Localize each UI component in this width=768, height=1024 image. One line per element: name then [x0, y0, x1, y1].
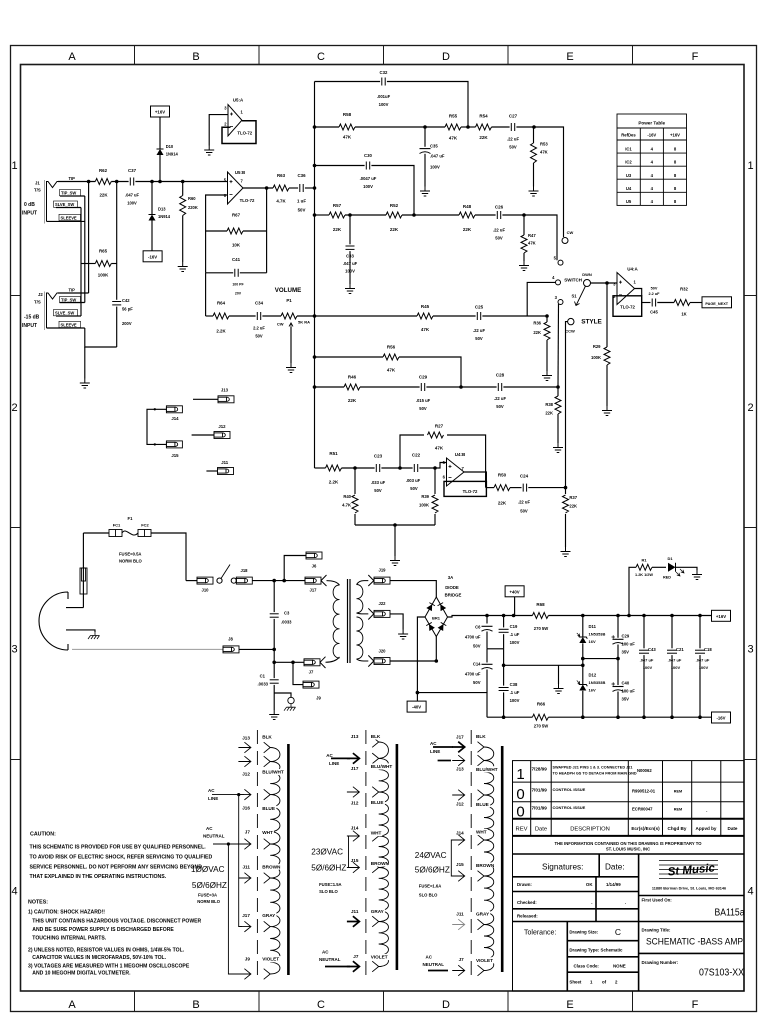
svg-text:07S103-XX: 07S103-XX [699, 968, 744, 979]
svg-text:100V: 100V [345, 269, 355, 274]
wire J2 tip_sw row [60, 302, 85, 304]
svg-text:J12: J12 [351, 801, 359, 806]
svg-text:5K RA: 5K RA [298, 320, 310, 325]
wire jack vertical c [80, 208, 82, 317]
svg-text:Ecr(s)/Ecn(s): Ecr(s)/Ecn(s) [631, 826, 660, 831]
svg-text:REM: REM [674, 808, 682, 812]
svg-text:1N5353B: 1N5353B [589, 632, 606, 637]
240VAC J11 arrow [452, 919, 465, 930]
capacitor C25 [476, 312, 478, 320]
svg-text:100K: 100K [591, 355, 601, 360]
pot terminal CW [562, 238, 568, 244]
svg-text:J17: J17 [456, 734, 464, 739]
svg-text:J18: J18 [241, 568, 249, 573]
240VAC J15 arrow [452, 871, 465, 882]
transformer primary winding [333, 585, 339, 658]
230VAC J12 arrow [347, 787, 360, 798]
primary top entry [321, 575, 340, 586]
wire R56 down to C29 row [399, 357, 461, 387]
230VAC neutral wire [325, 966, 350, 968]
svg-text:BROWN: BROWN [371, 861, 390, 866]
svg-text:50V: 50V [374, 488, 382, 493]
svg-text:BR1: BR1 [432, 616, 441, 621]
svg-text:R46: R46 [348, 375, 357, 380]
capacitor C26 [496, 211, 498, 219]
svg-text:5Ø/6ØHZ: 5Ø/6ØHZ [415, 865, 450, 874]
svg-text:+40V: +40V [510, 589, 520, 594]
capacitor C3 [273, 581, 275, 613]
revision table columns [531, 761, 721, 836]
svg-text:47K: 47K [435, 446, 444, 451]
svg-text:47K: 47K [421, 327, 430, 332]
svg-text:J7: J7 [309, 670, 314, 675]
svg-text:J9: J9 [245, 957, 251, 962]
svg-text:50V: 50V [298, 208, 306, 213]
svg-text:.: . [591, 900, 592, 905]
svg-text:C36: C36 [297, 173, 306, 178]
230VAC column transformer core bar [396, 744, 399, 970]
input jack J1 [22, 176, 81, 224]
svg-text:5Ø/6ØHZ: 5Ø/6ØHZ [192, 881, 227, 890]
240VAC column wire color labels [475, 733, 488, 739]
svg-text:22K: 22K [569, 504, 577, 509]
switch terminal 4 [556, 280, 561, 285]
switch terminal 3 [558, 300, 563, 305]
+40V box [505, 586, 524, 597]
wire C22 to U4:B pin5 [419, 463, 446, 469]
svg-text:INPUT: INPUT [22, 211, 37, 217]
240VAC J12 arrow [452, 790, 465, 801]
svg-text:FC2: FC2 [141, 523, 149, 528]
svg-text:200V: 200V [122, 321, 132, 326]
company logo [659, 861, 718, 879]
svg-text:-15 dB: -15 dB [24, 315, 40, 321]
ground under R29 [602, 406, 612, 416]
svg-text:BLUE: BLUE [371, 800, 384, 805]
feedback loop U5:A [222, 121, 256, 144]
svg-text:R32: R32 [680, 287, 688, 292]
svg-text:C29: C29 [622, 634, 630, 639]
svg-text:LINE: LINE [430, 749, 440, 754]
+40 rail wire [448, 616, 533, 618]
100VAC column primary winding [270, 748, 280, 975]
svg-text:-40V: -40V [412, 705, 421, 710]
svg-text:PAGE_NEXT: PAGE_NEXT [705, 302, 728, 306]
svg-text:A: A [68, 51, 76, 63]
feedback C41 row wire [206, 272, 234, 274]
svg-text:C29: C29 [419, 375, 428, 380]
svg-text:THIS SCHEMATIC IS PROVIDED FOR: THIS SCHEMATIC IS PROVIDED FOR USE BY QU… [30, 845, 207, 851]
240VAC column primary winding [484, 747, 494, 971]
svg-text:RED: RED [663, 576, 671, 580]
ground under R47 [519, 261, 529, 271]
feedback R67 row wire [206, 230, 227, 232]
wire J20 to bridge [390, 637, 436, 662]
svg-text:.0033: .0033 [258, 682, 269, 687]
svg-text:R58: R58 [343, 112, 352, 117]
svg-text:.047 uF: .047 uF [343, 261, 358, 266]
svg-text:1K: 1K [681, 312, 686, 317]
wire R57 to R52 [345, 214, 386, 216]
connector J15 [166, 441, 182, 448]
capacitor C36 [299, 184, 301, 192]
resistor R60 [180, 196, 186, 216]
svg-text:J16: J16 [242, 806, 250, 811]
R27 feedback loop wire [400, 435, 424, 468]
svg-text:BLK: BLK [371, 734, 381, 739]
svg-text:AC: AC [322, 950, 329, 955]
input jack J2 [22, 288, 81, 331]
svg-text:C43: C43 [648, 647, 656, 652]
svg-text:R67: R67 [232, 213, 241, 218]
switch terminal 5 [558, 260, 563, 265]
wire P1 to rail [297, 315, 315, 317]
wire C37 to U5B pin5 [135, 181, 227, 183]
svg-text:SLEEVE: SLEEVE [61, 215, 77, 220]
svg-text:R68: R68 [536, 602, 545, 607]
wire C23 to C22 [381, 467, 412, 469]
wire J1 tip_sw row [60, 195, 85, 197]
svg-text:3: 3 [747, 644, 753, 656]
svg-text:50V: 50V [651, 287, 658, 291]
wire R1 to D1 [652, 566, 666, 568]
svg-text:BA115a: BA115a [715, 908, 745, 919]
-16V box [712, 712, 731, 723]
svg-text:AC: AC [430, 741, 437, 746]
svg-text:C35: C35 [430, 144, 438, 149]
svg-text:BROWN: BROWN [262, 864, 281, 869]
svg-text:J1: J1 [35, 181, 40, 186]
svg-text:Chgd By: Chgd By [668, 826, 687, 831]
-16 rail wire [548, 716, 712, 718]
capacitor C6 [486, 616, 488, 624]
LED D1 [668, 563, 676, 572]
svg-text:NONE: NONE [613, 963, 626, 968]
svg-text:.22 uF: .22 uF [518, 500, 531, 505]
100VAC neutral wire [213, 843, 244, 845]
svg-text:22K: 22K [348, 398, 357, 403]
svg-text:U5:B: U5:B [235, 170, 245, 175]
svg-text:U3: U3 [626, 173, 632, 178]
capacitor C37 [129, 178, 131, 186]
svg-text:C18: C18 [704, 647, 712, 652]
svg-text:BLK: BLK [262, 735, 272, 740]
svg-text:CCW: CCW [565, 329, 575, 334]
secondary winding lower [357, 617, 363, 659]
svg-text:J12: J12 [456, 801, 464, 806]
svg-text:BLUE: BLUE [476, 802, 489, 807]
+16V box [712, 610, 731, 621]
svg-text:BRIDGE: BRIDGE [445, 593, 462, 598]
svg-text:50V: 50V [419, 406, 427, 411]
svg-text:Date: Date [728, 826, 738, 831]
svg-text:C: C [615, 927, 621, 937]
R56 row wire [315, 356, 384, 358]
svg-text:J11: J11 [456, 912, 464, 917]
svg-text:D: D [442, 51, 450, 63]
+16V supply box [151, 106, 170, 117]
secondary middle tap [357, 608, 374, 619]
svg-text:R57: R57 [333, 203, 342, 208]
wire R1 branch [629, 567, 636, 615]
svg-text:-16V: -16V [647, 133, 656, 138]
power switch lever [221, 565, 230, 579]
wire J2 sleeve row [47, 327, 85, 329]
svg-text:C6: C6 [475, 625, 481, 630]
svg-text:AC: AC [208, 788, 215, 793]
wire node to R60 [182, 182, 184, 196]
svg-text:C: C [317, 999, 325, 1011]
svg-text:AC: AC [426, 955, 433, 960]
svg-text:R45: R45 [421, 304, 430, 309]
240VAC J7 arrow [452, 965, 465, 976]
svg-text:1N5353B: 1N5353B [589, 680, 606, 685]
svg-text:BLU/WHT: BLU/WHT [476, 767, 498, 772]
wire D13 to -16V [151, 221, 153, 251]
connector J13 [193, 398, 218, 400]
240VAC neutral wire [428, 970, 448, 972]
svg-text:J9: J9 [316, 696, 321, 701]
240VAC line wire [433, 746, 453, 748]
resistor R39 [434, 468, 436, 494]
svg-text:J19: J19 [379, 568, 387, 573]
volume pot P1 [262, 315, 281, 317]
title block frame [513, 854, 745, 991]
capacitor C45 [651, 299, 653, 307]
ground under R40 R39 [390, 556, 400, 566]
ground under R60 [178, 262, 188, 272]
ground under R53 [529, 187, 539, 197]
ground under P1 [286, 363, 296, 373]
svg-text:1 uF: 1 uF [297, 199, 306, 204]
wire U4:B out to R50 [486, 487, 494, 489]
svg-text:Tolerance:: Tolerance: [524, 930, 556, 937]
svg-text:0: 0 [516, 786, 524, 803]
zener D11 [582, 616, 584, 637]
svg-text:J15: J15 [171, 453, 179, 458]
resistor R46 [344, 384, 360, 390]
svg-text:1: 1 [11, 160, 17, 172]
wire J6 to AC node [284, 556, 306, 581]
svg-text:P1: P1 [286, 298, 292, 303]
wire plug to fuse [82, 533, 84, 608]
svg-text:4.7K: 4.7K [342, 503, 351, 508]
svg-text:NOTES:: NOTES: [28, 900, 48, 906]
resistor R66 [532, 714, 548, 720]
resistor R47 [523, 215, 525, 235]
svg-text:.001uF: .001uF [377, 94, 391, 99]
svg-text:2.2K: 2.2K [216, 329, 226, 334]
svg-text:.047 uF: .047 uF [125, 193, 140, 198]
wire R55 to R54 [461, 126, 476, 128]
svg-text:J13: J13 [242, 736, 250, 741]
svg-text:THE INFORMATION CONTAINED ON T: THE INFORMATION CONTAINED ON THIS DRAWIN… [555, 841, 703, 846]
240VAC column transformer core bar [501, 746, 504, 972]
svg-text:NEUTRAL: NEUTRAL [319, 957, 341, 962]
connector J18 [236, 577, 252, 584]
ground mid rail [558, 665, 560, 684]
feedback box U4:A [613, 296, 642, 317]
svg-text:.0047 uF: .0047 uF [360, 176, 377, 181]
wire terminal3 down to C28 row [557, 304, 560, 387]
U4:B input row wire [315, 467, 326, 469]
svg-text:R990512-01: R990512-01 [632, 789, 656, 794]
240VAC J17 arrow [452, 742, 465, 753]
svg-text:SCHEMATIC -BASS AMP: SCHEMATIC -BASS AMP [646, 937, 743, 948]
ground under J2 [80, 379, 90, 389]
240VAC J14 arrow [452, 835, 465, 846]
svg-text:S1: S1 [572, 294, 578, 299]
svg-text:SLVE_SW: SLVE_SW [55, 202, 74, 207]
wire U5:B output to R63 [243, 187, 273, 189]
svg-text:C25: C25 [475, 305, 484, 310]
100VAC column transformer core bar [287, 744, 290, 975]
capacitor C35 [424, 127, 426, 147]
svg-text:3A: 3A [448, 575, 454, 580]
capacitor C34 [256, 312, 258, 320]
main feedback rail [314, 82, 316, 469]
wire J2 slve_sw row [56, 315, 81, 317]
svg-text:R52: R52 [390, 203, 399, 208]
svg-text:D: D [442, 999, 450, 1011]
capacitor C29 psu [617, 616, 619, 638]
svg-text:.22 uF: .22 uF [473, 328, 486, 333]
svg-text:J6: J6 [312, 564, 317, 569]
-40 rail to R66 [487, 716, 532, 718]
R57 row wire [315, 214, 330, 216]
svg-text:4: 4 [11, 886, 17, 898]
wire C24 to R37 node [528, 487, 565, 489]
svg-text:3: 3 [11, 644, 17, 656]
svg-text:2: 2 [747, 402, 753, 414]
svg-text:22K: 22K [390, 227, 399, 232]
svg-text:100V: 100V [510, 640, 520, 645]
svg-text:R37: R37 [569, 495, 577, 500]
svg-text:100V: 100V [430, 165, 440, 170]
svg-text:22K: 22K [479, 135, 488, 140]
wire C27 to CW rail [516, 127, 563, 237]
svg-text:SLO BLO: SLO BLO [419, 892, 438, 897]
svg-text:TO HEADPH GS TO DETACH FROM MA: TO HEADPH GS TO DETACH FROM MAIN GND [553, 772, 637, 776]
connector J20 [374, 658, 390, 665]
svg-text:0: 0 [516, 804, 524, 821]
svg-text:J11: J11 [242, 864, 250, 869]
svg-text:C40: C40 [622, 681, 630, 686]
svg-text:U4: U4 [626, 186, 632, 191]
svg-text:GRAY: GRAY [476, 912, 490, 917]
mid ground rail [504, 664, 583, 666]
wire C28 to R38 node [503, 386, 558, 388]
svg-text:DWN: DWN [582, 272, 592, 277]
wire to ground [394, 525, 396, 556]
capacitor C29 [420, 383, 422, 391]
ground under R37 [561, 547, 571, 557]
wire C42 rail [116, 182, 118, 300]
svg-text:Date: Date [535, 826, 547, 832]
off-page connector PAGE_NEXT [702, 297, 732, 308]
svg-text:.003 uF: .003 uF [406, 478, 421, 483]
primary bottom entry [320, 657, 340, 668]
capacitor C33 [349, 215, 351, 244]
svg-text:Signatures:: Signatures: [542, 863, 583, 872]
svg-text:C19: C19 [510, 624, 518, 629]
connector J19 [374, 577, 390, 584]
svg-text:C: C [317, 51, 325, 63]
svg-text:1: 1 [516, 766, 524, 783]
230VAC line wire [331, 757, 350, 759]
svg-text:CAUTION:: CAUTION: [30, 832, 56, 838]
resistor R32 [674, 300, 690, 306]
svg-text:First Used On:: First Used On: [642, 898, 673, 903]
connector J22 [374, 610, 390, 617]
wire R65 row [81, 263, 95, 265]
-40V box [416, 693, 418, 702]
revision table frame [513, 761, 745, 991]
230VAC column wire color labels [370, 733, 383, 739]
capacitor C42 [112, 301, 121, 303]
svg-text:-16V: -16V [148, 254, 157, 259]
svg-text:J2: J2 [38, 292, 43, 297]
resistor R63 [273, 185, 289, 191]
svg-text:CAPACITOR VALUES IN MICROFARAD: CAPACITOR VALUES IN MICROFARADS, 50V-10%… [32, 955, 166, 961]
svg-text:of: of [602, 980, 607, 985]
svg-text:220K: 220K [188, 205, 198, 210]
svg-text:2) UNLESS NOTED, RESISTOR VALU: 2) UNLESS NOTED, RESISTOR VALUES IN OHMS… [28, 948, 185, 954]
svg-text:INPUT: INPUT [22, 323, 37, 329]
svg-text:R54: R54 [479, 114, 488, 119]
svg-text:2.2K: 2.2K [329, 480, 339, 485]
230VAC column winding taps [372, 737, 379, 748]
svg-text:50V: 50V [473, 644, 481, 649]
230VAC J15 arrow [347, 862, 360, 873]
100VAC J11 arrow [238, 873, 251, 884]
wire box to C45 [642, 302, 651, 304]
svg-text:J13: J13 [221, 388, 229, 393]
svg-text:FUSE=3A: FUSE=3A [198, 892, 217, 897]
svg-text:270 5W: 270 5W [534, 626, 548, 631]
resistor R64 [206, 315, 213, 317]
svg-text:50V: 50V [495, 236, 503, 241]
svg-text:16V: 16V [589, 639, 596, 644]
+16 rail wire [548, 615, 712, 617]
svg-text:16V: 16V [589, 688, 596, 693]
svg-text:NORM BLO: NORM BLO [119, 559, 143, 564]
capacitor C38 [503, 665, 505, 685]
svg-text:22K: 22K [463, 227, 472, 232]
svg-text:23ØVAC: 23ØVAC [311, 848, 343, 857]
connector J5 inline [80, 568, 87, 594]
svg-text:TLO-72: TLO-72 [240, 198, 255, 203]
capacitor C23 [375, 464, 377, 472]
svg-text:50V: 50V [473, 680, 481, 685]
svg-text:J20: J20 [379, 649, 387, 654]
svg-text:C1: C1 [260, 674, 266, 679]
switch S1 lever [575, 286, 586, 306]
resistor R58 [339, 124, 355, 130]
bottom wire R40 R39 [355, 524, 435, 526]
svg-text:STYLE: STYLE [581, 319, 602, 326]
resistor R67 [227, 228, 243, 234]
svg-text:.015 uF: .015 uF [416, 398, 431, 403]
svg-text:SLEEVE: SLEEVE [61, 322, 77, 327]
svg-text:50V: 50V [509, 145, 517, 150]
-16V supply box [143, 251, 162, 262]
svg-text:LINE: LINE [208, 796, 218, 801]
chassis ground stub [274, 693, 291, 697]
240VAC J13 arrow [452, 755, 465, 766]
capacitor C1 [273, 662, 275, 678]
resistor R38 [557, 387, 559, 396]
